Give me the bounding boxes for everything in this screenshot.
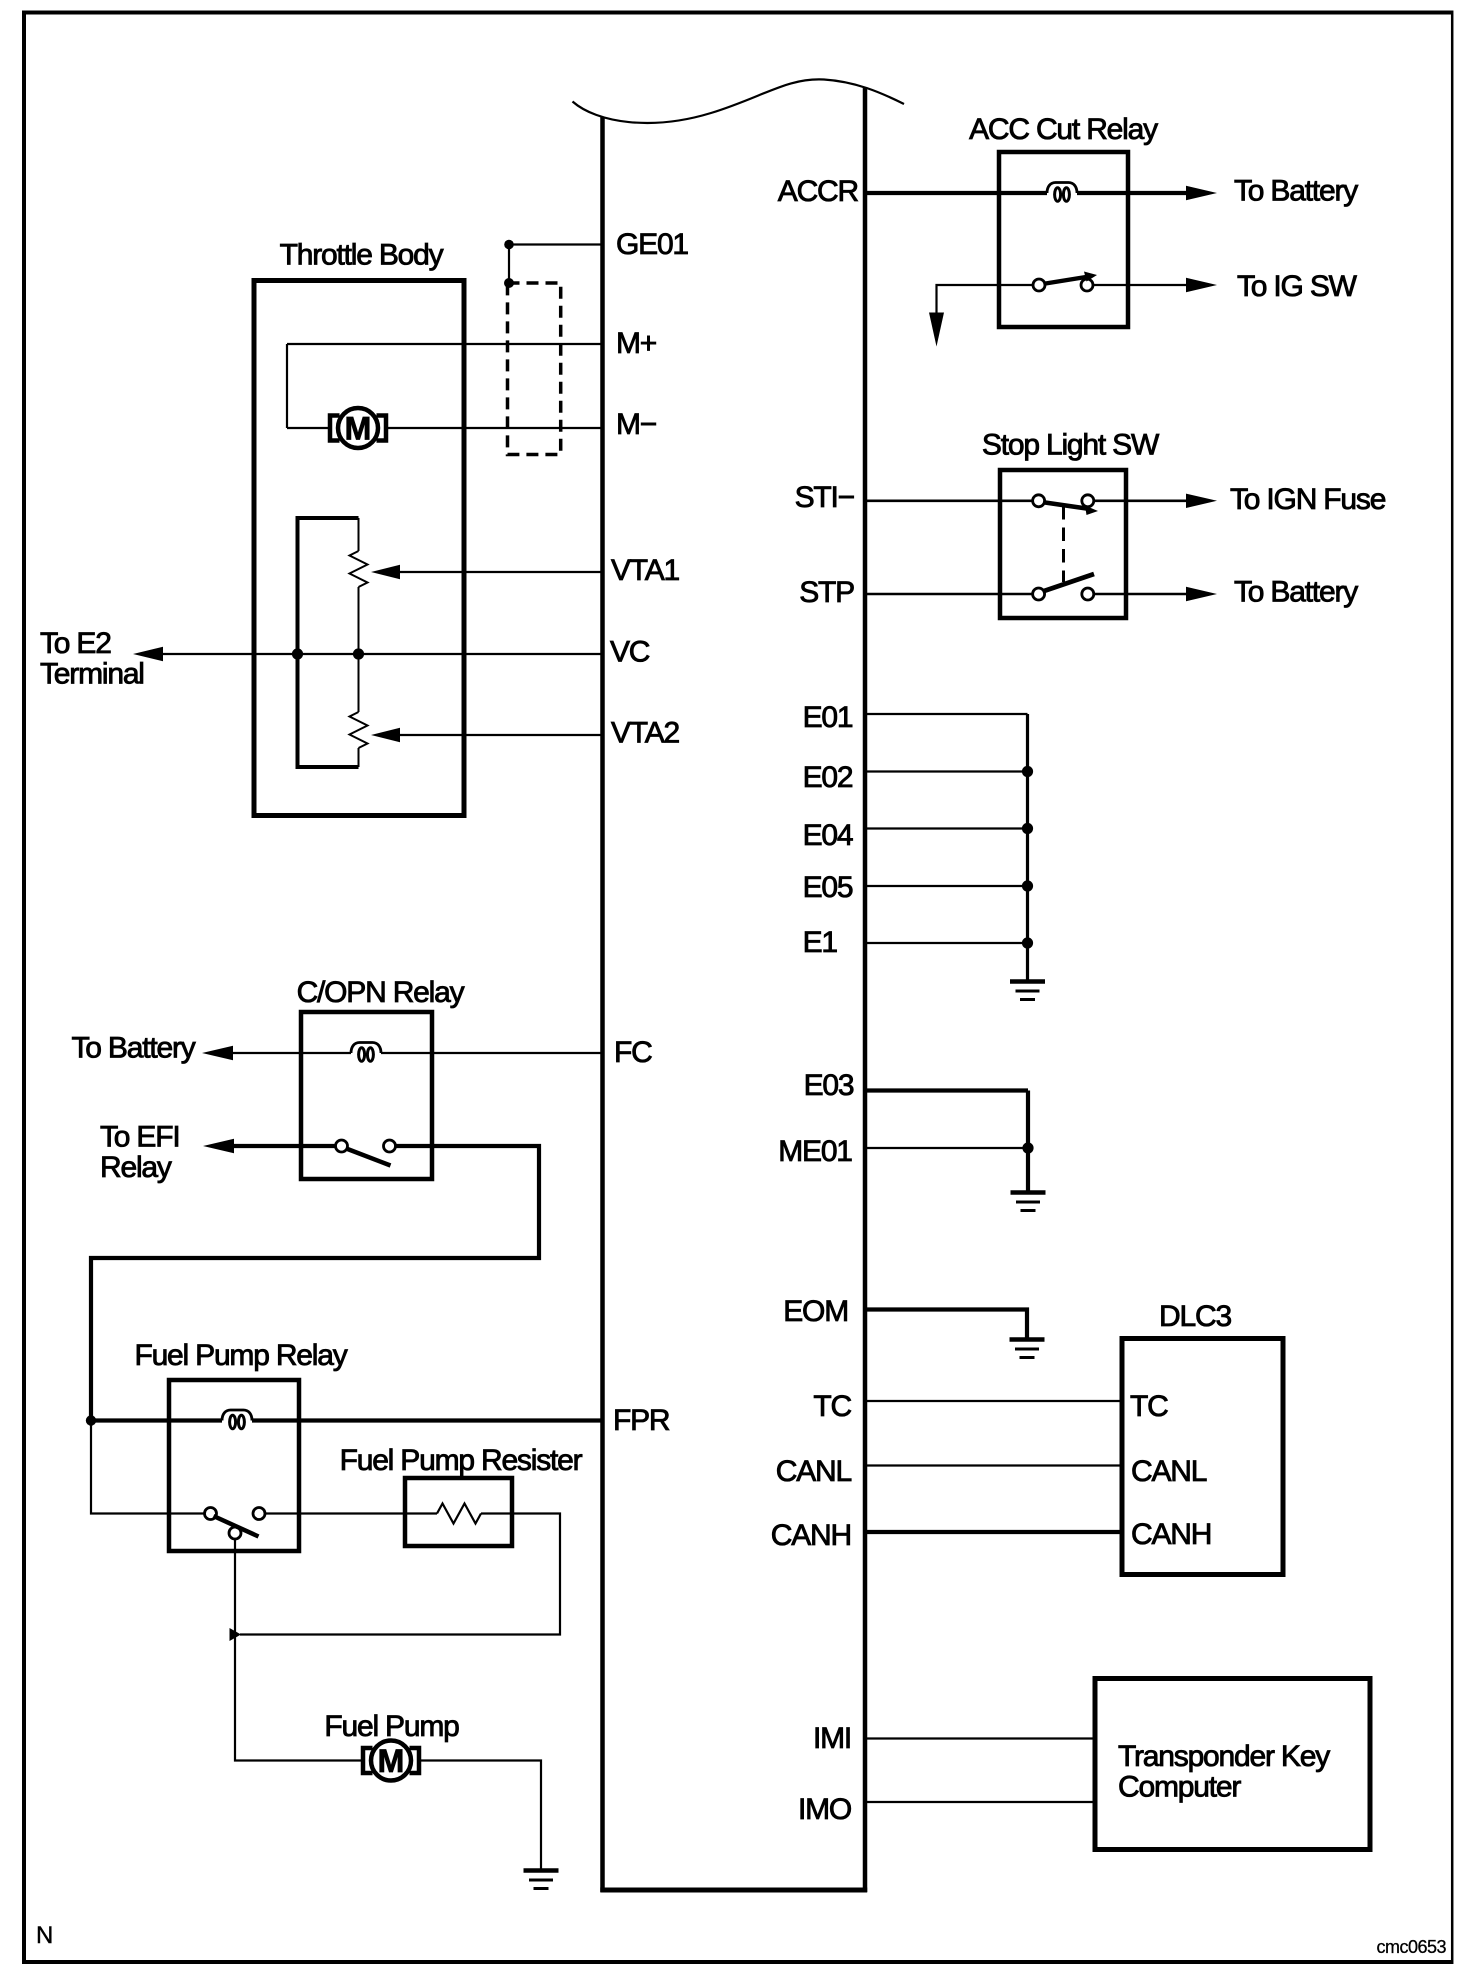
svg-text:EOM: EOM bbox=[783, 1295, 848, 1328]
node E05 dot bbox=[1022, 880, 1033, 891]
svg-text:C/OPN Relay: C/OPN Relay bbox=[297, 976, 465, 1009]
svg-text:CANL: CANL bbox=[776, 1455, 852, 1488]
wire ACC switch right bbox=[1093, 284, 1187, 286]
ECM bottom edge bbox=[600, 1888, 867, 1893]
wire E1 pin bbox=[865, 942, 1028, 944]
svg-text:To E2: To E2 bbox=[40, 627, 111, 660]
Throttle Body box bbox=[254, 281, 464, 816]
node E02 dot bbox=[1022, 766, 1033, 777]
svg-text:Transponder Key: Transponder Key bbox=[1118, 1740, 1330, 1773]
svg-text:Relay: Relay bbox=[100, 1151, 172, 1184]
arrow To Battery (ACC) bbox=[1186, 186, 1217, 200]
wire VTA2 pin bbox=[400, 734, 603, 736]
wire C/OPN contact to corner (thick) bbox=[91, 1146, 539, 1421]
node VC dot left bbox=[292, 648, 303, 659]
wire common contact to fuel pump bbox=[235, 1539, 362, 1761]
wire GE01 pin to junction bbox=[509, 243, 603, 245]
svg-text:Fuel Pump Resister: Fuel Pump Resister bbox=[340, 1444, 583, 1477]
svg-text:To Battery: To Battery bbox=[72, 1032, 196, 1065]
svg-text:Stop Light SW: Stop Light SW bbox=[982, 429, 1160, 462]
arrow To Battery (STP) bbox=[1186, 587, 1217, 601]
ECM top break wavy line bbox=[573, 79, 905, 123]
Fuel Pump Resister box bbox=[405, 1478, 512, 1546]
wire FPR pin left segment (thick) bbox=[91, 1418, 222, 1422]
wire EOM pin (thick) bbox=[865, 1310, 1027, 1338]
relay contact circle right (ACC) bbox=[1081, 279, 1093, 291]
wire FC pin right segment bbox=[381, 1052, 603, 1054]
TPS sensor outline (left/top/bottom) bbox=[298, 518, 359, 767]
ECM right edge (vertical) bbox=[863, 87, 868, 1892]
C/OPN Relay box bbox=[301, 1012, 432, 1179]
wire VTA1 pin bbox=[400, 571, 603, 573]
Transponder Key Computer box bbox=[1095, 1679, 1370, 1850]
svg-text:Fuel Pump Relay: Fuel Pump Relay bbox=[134, 1339, 347, 1372]
wire CANH pin (thick) bbox=[865, 1530, 1122, 1534]
wire ACCR pin left segment (thick) bbox=[865, 191, 1047, 195]
ground (fuel pump) bbox=[524, 1871, 559, 1889]
relay contact circle left (Fuel Pump Relay) bbox=[205, 1508, 217, 1520]
relay coil (C/OPN) bbox=[351, 1043, 381, 1062]
node VC dot right bbox=[353, 648, 364, 659]
blade arrowhead (ACC) bbox=[1084, 272, 1097, 282]
svg-text:M: M bbox=[378, 1743, 405, 1779]
wire motor branch vertical bbox=[286, 344, 288, 428]
node FPR junction dot bbox=[86, 1415, 96, 1425]
TPS element upper lead bbox=[358, 518, 360, 551]
arrow To E2 Terminal bbox=[133, 647, 163, 661]
arrow To IG SW bbox=[1186, 278, 1217, 292]
wire ME01 pin bbox=[865, 1147, 1028, 1149]
wire STP to arrow bbox=[1094, 593, 1187, 596]
svg-text:Throttle Body: Throttle Body bbox=[280, 239, 444, 272]
svg-text:To EFI: To EFI bbox=[100, 1121, 180, 1154]
contact circle STI left bbox=[1033, 495, 1045, 507]
contact circle STI right bbox=[1082, 495, 1094, 507]
svg-text:M+: M+ bbox=[616, 327, 657, 360]
svg-text:E03: E03 bbox=[804, 1069, 854, 1102]
svg-text:E04: E04 bbox=[803, 819, 853, 852]
wire resister out loop bbox=[240, 1514, 560, 1635]
wire FPR pin right segment (thick) bbox=[252, 1418, 603, 1422]
wire ACCR pin right segment (thick) bbox=[1077, 191, 1187, 195]
svg-text:E1: E1 bbox=[803, 926, 838, 959]
arrow To IGN Fuse bbox=[1186, 494, 1217, 508]
svg-text:DLC3: DLC3 bbox=[1159, 1300, 1231, 1333]
shield dashed box around M+/M- wires bbox=[508, 283, 561, 455]
ground (EOM) bbox=[1010, 1340, 1045, 1358]
arrow VTA2 wiper bbox=[371, 728, 400, 742]
svg-text:STI−: STI− bbox=[795, 481, 855, 514]
wire fuel pump to ground bbox=[419, 1761, 541, 1869]
svg-text:cmc0653: cmc0653 bbox=[1376, 1937, 1446, 1957]
wire E05 pin bbox=[865, 885, 1028, 887]
Fuel Pump Relay box bbox=[169, 1380, 299, 1551]
wire E03 vertical (thick) bbox=[1026, 1091, 1030, 1191]
svg-text:N: N bbox=[36, 1922, 53, 1949]
node junction dot upper (GE01 branch) bbox=[504, 240, 514, 250]
svg-text:E05: E05 bbox=[803, 871, 853, 904]
wire M+ pin bbox=[287, 343, 603, 345]
contact circle STP right bbox=[1082, 588, 1094, 600]
svg-text:FC: FC bbox=[614, 1036, 652, 1069]
relay coil (Fuel Pump Relay) bbox=[222, 1410, 252, 1429]
svg-text:VTA1: VTA1 bbox=[611, 554, 680, 587]
svg-text:TC: TC bbox=[1130, 1390, 1168, 1423]
blade arrowhead (STI) bbox=[1085, 506, 1098, 516]
svg-text:CANL: CANL bbox=[1131, 1455, 1207, 1488]
resistor R1 (VTA1 track) bbox=[350, 551, 368, 587]
TPS element lower lead bbox=[358, 748, 360, 767]
resistor R2 (VTA2 track) bbox=[350, 712, 368, 748]
arrow To Battery (C/OPN) bbox=[202, 1046, 233, 1060]
wire IMI pin bbox=[865, 1737, 1095, 1739]
svg-text:IMO: IMO bbox=[798, 1793, 851, 1826]
wire STP pin bbox=[865, 593, 1033, 596]
svg-text:ACC Cut Relay: ACC Cut Relay bbox=[969, 113, 1158, 146]
svg-text:To Battery: To Battery bbox=[1234, 175, 1358, 208]
resistor element (Fuel Pump Resister) bbox=[437, 1504, 481, 1524]
wire down to relay switch bbox=[91, 1421, 205, 1514]
wire CANL pin bbox=[865, 1464, 1122, 1466]
svg-text:GE01: GE01 bbox=[616, 228, 688, 261]
ACC Cut Relay box bbox=[999, 152, 1128, 327]
wire VC pin bbox=[163, 653, 603, 655]
Stop Light SW box bbox=[1000, 470, 1126, 618]
wire M- pin bbox=[386, 427, 603, 429]
svg-text:Terminal: Terminal bbox=[40, 658, 144, 691]
svg-text:E01: E01 bbox=[803, 701, 853, 734]
node E1 dot bbox=[1022, 937, 1033, 948]
ECM left edge (vertical) bbox=[600, 117, 605, 1892]
wire junction to shield bbox=[508, 245, 510, 284]
svg-text:VC: VC bbox=[610, 636, 650, 669]
ground (E ladder) bbox=[1010, 982, 1045, 1000]
svg-text:VTA2: VTA2 bbox=[611, 717, 680, 750]
relay coil (ACC Cut Relay) bbox=[1047, 183, 1077, 202]
arrow down (ACC drop) bbox=[929, 313, 944, 347]
svg-text:E02: E02 bbox=[803, 761, 853, 794]
contact circle STP left bbox=[1033, 588, 1045, 600]
DLC3 box bbox=[1122, 1339, 1283, 1575]
wire TC pin bbox=[865, 1400, 1122, 1402]
node ME01 dot bbox=[1022, 1142, 1033, 1153]
Fuel Pump motor bbox=[363, 1741, 419, 1781]
svg-text:Computer: Computer bbox=[1118, 1771, 1241, 1804]
wire E04 pin bbox=[865, 827, 1028, 829]
arrow VTA1 wiper bbox=[371, 565, 400, 579]
wire E ladder vertical bbox=[1026, 714, 1029, 980]
relay contact circle left (C/OPN) bbox=[336, 1140, 348, 1152]
relay contact circle right (C/OPN) bbox=[384, 1140, 396, 1152]
node E04 dot bbox=[1022, 823, 1033, 834]
wire STI pin bbox=[865, 499, 1033, 502]
relay contact circle left (ACC) bbox=[1033, 279, 1045, 291]
svg-text:CANH: CANH bbox=[1131, 1518, 1211, 1551]
svg-text:To IGN Fuse: To IGN Fuse bbox=[1230, 483, 1386, 516]
arrow To EFI Relay bbox=[203, 1139, 234, 1153]
svg-text:ME01: ME01 bbox=[778, 1135, 852, 1168]
wire E02 pin bbox=[865, 770, 1028, 772]
wire E03 pin (thick) bbox=[865, 1088, 1028, 1092]
relay switch blade (C/OPN) bbox=[348, 1149, 391, 1166]
wire To EFI Relay (thick) bbox=[234, 1144, 336, 1148]
node junction dot lower (shield corner) bbox=[504, 278, 514, 288]
motor M (throttle) bbox=[330, 408, 386, 448]
relay contact circle right (Fuel Pump Relay) bbox=[253, 1508, 265, 1520]
wire relay to resister bbox=[265, 1512, 437, 1514]
svg-text:FPR: FPR bbox=[613, 1404, 670, 1437]
node junction marker (fuel pump feed) bbox=[230, 1628, 242, 1641]
svg-text:STP: STP bbox=[799, 576, 854, 609]
svg-text:ACCR: ACCR bbox=[778, 175, 859, 208]
switch blade STI bbox=[1045, 503, 1090, 510]
relay switch blade (Fuel Pump Relay) bbox=[214, 1516, 259, 1537]
svg-text:TC: TC bbox=[813, 1390, 851, 1423]
svg-text:Fuel Pump: Fuel Pump bbox=[324, 1710, 459, 1743]
wire motor left lead bbox=[287, 427, 330, 429]
wire E01 pin bbox=[865, 713, 1028, 715]
svg-text:M−: M− bbox=[616, 408, 657, 441]
svg-text:M: M bbox=[345, 411, 372, 447]
switch blade STP bbox=[1044, 574, 1094, 591]
svg-text:IMI: IMI bbox=[813, 1722, 851, 1755]
wire STI to arrow bbox=[1094, 499, 1187, 502]
wire IMO pin bbox=[865, 1801, 1095, 1803]
relay contact circle common (Fuel Pump Relay) bbox=[229, 1527, 241, 1539]
svg-text:CANH: CANH bbox=[771, 1519, 851, 1552]
TPS element middle lead bbox=[358, 587, 360, 712]
dashed link between stop light contacts bbox=[1062, 506, 1065, 582]
svg-text:To Battery: To Battery bbox=[1234, 576, 1358, 609]
svg-text:To IG SW: To IG SW bbox=[1237, 270, 1358, 303]
wire ACC switch left with drop bbox=[937, 285, 1034, 313]
relay switch blade (ACC) bbox=[1046, 277, 1090, 284]
wire FC pin left segment bbox=[233, 1052, 351, 1054]
ground (ME01) bbox=[1011, 1193, 1046, 1211]
